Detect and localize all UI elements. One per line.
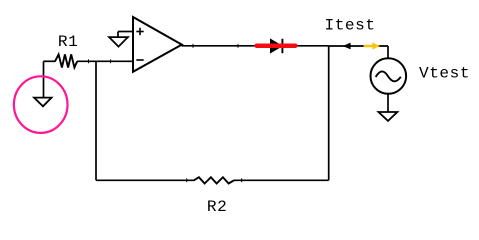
ground GND2 (op-amp non-inverting input) — [109, 32, 133, 47]
wire: feedback left vertical — [95, 61, 97, 180]
wire: input node from circled ground to R1 — [44, 60, 56, 62]
op-amp U1 — [133, 17, 182, 72]
annotation: magenta highlight ellipse around GND1 — [14, 76, 68, 133]
wire: output node to Vtest — [329, 45, 388, 47]
pin endpoint ticks — [89, 44, 389, 182]
svg-text:R2: R2 — [207, 198, 227, 216]
annotation: red highlight over D1 — [257, 43, 296, 48]
svg-text:Vtest: Vtest — [419, 65, 470, 83]
annotation: current direction arrow (yellow, pointing right) — [364, 42, 380, 49]
wire: feedback bottom right segment — [234, 179, 329, 181]
svg-text:Itest: Itest — [325, 17, 376, 35]
ground GND1 (input, circled) — [34, 61, 51, 106]
resistor R2 — [194, 177, 234, 183]
voltage source Vtest — [371, 46, 407, 112]
diode D1 — [271, 39, 283, 53]
wire: op-amp output net — [182, 45, 329, 47]
wire: R1 to op-amp inverting input (junction at x=96) — [77, 60, 134, 62]
svg-text:R1: R1 — [58, 33, 78, 51]
wire: feedback bottom left segment — [96, 179, 194, 181]
ground GND3 (below Vtest) — [379, 112, 398, 121]
wire: feedback right vertical — [328, 46, 330, 181]
annotation: current probe arrow (black, pointing left) — [343, 43, 351, 50]
resistor R1 — [55, 54, 77, 67]
